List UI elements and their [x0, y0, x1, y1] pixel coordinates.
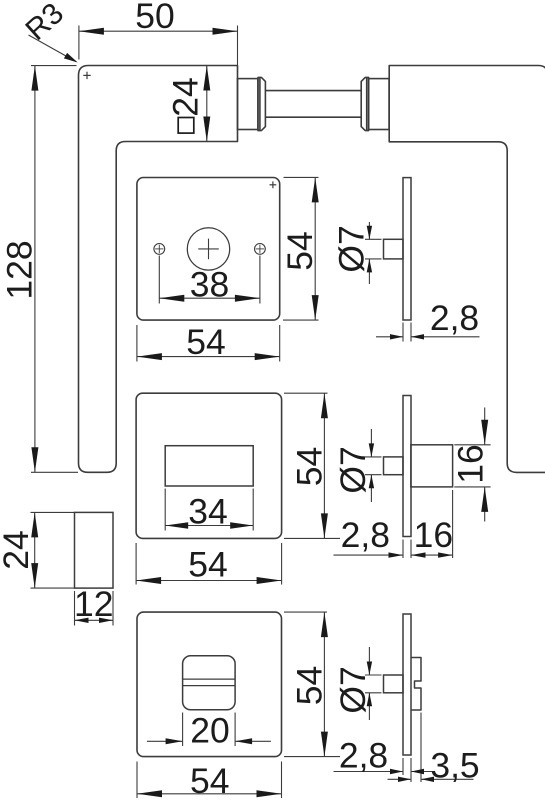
- svg-text:54: 54: [186, 322, 226, 362]
- svg-text:2,8: 2,8: [339, 736, 388, 776]
- svg-text:R3: R3: [20, 0, 71, 47]
- svg-text:54: 54: [190, 761, 230, 800]
- svg-text:34: 34: [188, 492, 228, 532]
- svg-text:20: 20: [190, 711, 230, 751]
- svg-text:2,8: 2,8: [341, 515, 390, 555]
- svg-text:38: 38: [190, 265, 230, 305]
- svg-text:Ø7: Ø7: [333, 666, 373, 713]
- svg-text:2,8: 2,8: [430, 298, 479, 338]
- svg-text:54: 54: [290, 666, 330, 706]
- svg-text:16: 16: [451, 444, 491, 484]
- svg-text:54: 54: [188, 545, 228, 585]
- svg-text:54: 54: [280, 231, 320, 271]
- svg-text:Ø7: Ø7: [333, 446, 373, 493]
- svg-text:12: 12: [74, 584, 114, 624]
- svg-text:3,5: 3,5: [430, 746, 479, 786]
- svg-text:16: 16: [414, 515, 454, 555]
- svg-text:54: 54: [290, 447, 330, 487]
- svg-text:50: 50: [135, 0, 175, 36]
- svg-text:128: 128: [0, 240, 40, 299]
- svg-text:24: 24: [166, 77, 206, 117]
- svg-text:Ø7: Ø7: [332, 225, 372, 272]
- svg-text:24: 24: [0, 530, 36, 570]
